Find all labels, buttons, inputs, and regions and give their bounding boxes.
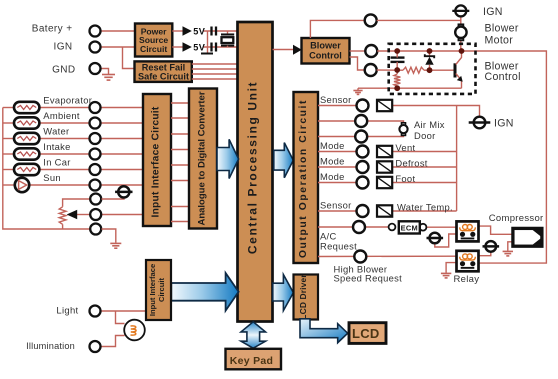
connector temperature set (115, 186, 132, 197)
wire pot top to terminal (63, 199, 91, 207)
terminal Evaporator (90, 102, 101, 113)
svg-text:Relay: Relay (454, 274, 480, 285)
svg-text:Water: Water (43, 125, 69, 136)
terminal mode Defrost (357, 161, 369, 173)
box Power Source Circuit (135, 24, 172, 57)
wire Defrost to bus (392, 166, 456, 168)
terminal GND (90, 63, 101, 74)
wire AC request to ECM (318, 226, 392, 228)
wire sensor row A to IGN (392, 106, 479, 117)
wire IGN to Power Source Circuit (101, 46, 136, 48)
svg-text:Output Operation Circuit: Output Operation Circuit (298, 99, 309, 258)
ground sensor return (110, 243, 121, 248)
label Input Interface Circuit (panel) (148, 264, 166, 316)
wire cap top lead (396, 51, 398, 58)
arrow LCD Driver to LCD (300, 319, 348, 343)
box Compressor clutch (513, 228, 542, 246)
svg-text:Light: Light (56, 306, 78, 317)
arrow CPU to Output Operation Circuit (274, 143, 294, 178)
wire compressor to ground (508, 242, 513, 251)
terminal AC request (353, 221, 365, 233)
wire Input Interface to ADC 6 (171, 180, 189, 182)
arrow CPU to blower control (293, 45, 302, 55)
box Output Operation Circuit (294, 92, 319, 263)
wire Reset to CPU 1 (192, 63, 238, 65)
actuator position sensor A (377, 100, 392, 111)
dashed box blower control module (389, 44, 476, 94)
zener diode blower module (425, 51, 434, 70)
label A/C Request (320, 231, 357, 252)
wire Power box to diode 1 (172, 30, 182, 32)
wire top rail (397, 50, 461, 52)
wire high blower to relay 2 (318, 255, 457, 257)
wire pot bottom (62, 224, 64, 229)
box Blower Control (302, 38, 350, 64)
svg-text:Door: Door (414, 130, 436, 141)
wire pot row to Input Interface (102, 214, 144, 216)
wire Input Interface to ADC 4 (171, 149, 189, 151)
box Central Processing Unit (238, 22, 273, 322)
diode 5V output 1 (183, 26, 192, 36)
terminal air mix C (355, 131, 367, 143)
box ECM (399, 221, 420, 233)
wire air mix row B (318, 120, 355, 122)
wire lamp to Illumination (101, 336, 125, 347)
wire air mix row B right (367, 121, 403, 124)
terminal blower 3 (365, 64, 377, 76)
svg-text:IGN: IGN (54, 42, 73, 53)
wire pot top connector stub (102, 197, 125, 199)
svg-text:Mode: Mode (320, 140, 345, 151)
svg-text:Illumination: Illumination (26, 341, 75, 351)
wire terminal 3 to resistor rail (377, 69, 403, 71)
wire Input Interface to ADC 8 (171, 221, 189, 223)
wire GND to ground (101, 69, 109, 75)
wire 5V vertical join (207, 31, 209, 53)
svg-text:IGN: IGN (494, 117, 514, 129)
wire Ambient to terminal (39, 122, 90, 124)
svg-text:Foot: Foot (395, 173, 415, 184)
terminal pot top (90, 194, 101, 205)
wire Input Interface to ADC 2 (171, 117, 189, 119)
wire Intake to terminal (39, 153, 90, 155)
box LCD (349, 323, 386, 344)
terminal sensor G (357, 205, 369, 217)
svg-text:Central Processing Unit: Central Processing Unit (246, 81, 260, 254)
svg-text:Mode: Mode (320, 156, 345, 167)
ground blower module (357, 88, 359, 90)
actuator door Vent (377, 146, 392, 157)
svg-text:Circuit: Circuit (157, 278, 166, 303)
box Input Interface Circuit (143, 94, 171, 226)
svg-text:Sensor: Sensor (320, 94, 352, 105)
svg-text:Batery +: Batery + (32, 24, 73, 35)
svg-text:5V: 5V (193, 27, 205, 37)
wire bus stub Ambient (3, 122, 13, 124)
arrow pot wiper (67, 210, 78, 219)
terminal In Car (90, 164, 101, 175)
svg-text:Evaporator: Evaporator (43, 94, 92, 105)
terminal Sun (90, 180, 101, 191)
wire Power box to diode 2 (172, 46, 182, 48)
terminal blower 2 (365, 45, 377, 57)
label Blower Motor (485, 22, 519, 46)
box Input Interface Circuit (panel) (146, 260, 171, 320)
wire Input Interface to ADC 7 (171, 206, 189, 208)
wire sensor row A (318, 105, 357, 107)
wire relay 1 to compressor (477, 226, 513, 234)
wire left sensor bus (3, 108, 90, 230)
label Blower Control (309, 41, 342, 61)
wire blower box top to terminal 1 (310, 20, 364, 38)
wire In Car terminal to Input Interface (101, 169, 144, 171)
wire blower box to terminal 2 (350, 50, 366, 52)
svg-text:GND: GND (52, 64, 75, 75)
box Reset Fail Safe Circuit (135, 61, 192, 82)
wire Ambient terminal to Input Interface (101, 122, 144, 124)
svg-text:Speed Request: Speed Request (334, 273, 403, 284)
wire ECM to relay 1 (427, 226, 457, 228)
wire relay 2 to ground (446, 263, 456, 273)
wire terminal 1 to blower motor (377, 19, 461, 21)
terminal IGN (90, 42, 101, 53)
wire Intake terminal to Input Interface (101, 153, 144, 155)
connector IGN (air mix) (469, 117, 491, 129)
svg-text:In Car: In Car (43, 156, 70, 167)
svg-text:Input Interface: Input Interface (148, 264, 157, 316)
svg-text:LCD: LCD (352, 326, 380, 341)
motor air mix door (399, 123, 407, 136)
terminal pot wiper (90, 209, 101, 220)
svg-text:Request: Request (320, 241, 357, 252)
svg-text:Ambient: Ambient (43, 110, 80, 121)
svg-text:Analogue to Digital Converter: Analogue to Digital Converter (197, 91, 208, 225)
svg-text:IGN: IGN (483, 6, 503, 18)
arrow ADC to CPU (217, 139, 239, 178)
terminal blower 1 (365, 14, 377, 26)
svg-text:Compressor: Compressor (489, 213, 544, 224)
svg-text:Vent: Vent (395, 142, 415, 153)
potentiometer temperature set (59, 207, 66, 225)
connector relay 1 stub (435, 234, 457, 247)
wire mode row Foot (318, 182, 357, 184)
svg-text:Input Interface Circuit: Input Interface Circuit (151, 106, 162, 217)
wire Reset to CPU 3 (192, 73, 238, 75)
svg-text:Defrost: Defrost (395, 158, 427, 169)
wire Light branch to lamp (116, 311, 125, 324)
wire Evaporator to terminal (39, 107, 90, 109)
thermistor In Car (14, 164, 39, 175)
wire CPU to blower control (273, 49, 294, 51)
actuator door Defrost (377, 161, 392, 172)
crystal X1 (221, 31, 234, 47)
arrow Input Interface to CPU (bottom) (171, 273, 238, 311)
wire Vent to bus (392, 151, 456, 153)
junction dots blower module (394, 48, 464, 91)
wire sensor row G (318, 210, 357, 212)
capacitor C2 (212, 43, 217, 52)
resistor blower module horizontal (403, 67, 424, 73)
wire 5V rail top (203, 30, 238, 32)
terminal sensor A (357, 100, 369, 112)
wire bottom rail (358, 87, 462, 89)
svg-text:Control: Control (309, 51, 342, 61)
connector IGN (blower) (452, 5, 469, 16)
terminal Light (90, 306, 101, 317)
svg-text:ECM: ECM (401, 224, 418, 233)
lamp illumination bulb (124, 320, 145, 341)
wire mode row Vent (318, 151, 357, 153)
connector relay 2 (483, 241, 500, 252)
svg-text:Motor: Motor (485, 34, 514, 46)
terminal Ambient (90, 118, 101, 129)
label Air Mix Door (414, 119, 445, 141)
wire Water to terminal (39, 138, 90, 140)
wire Reset to CPU 4 (192, 78, 238, 80)
terminal Illumination (90, 341, 101, 352)
terminal mode Foot (357, 177, 369, 189)
wire bottom row to ground (102, 229, 116, 243)
wire Input Interface to ADC 1 (171, 102, 189, 104)
terminal ECM right (420, 224, 427, 231)
diode 5V output 2 (183, 42, 192, 52)
terminal high blower (354, 251, 366, 263)
label Blower Control (module) (485, 60, 521, 82)
label High Blower Speed Request (334, 264, 403, 284)
wire Foot to bus (392, 182, 456, 184)
terminal ECM left (389, 224, 396, 231)
wire bus stub Intake (3, 153, 13, 155)
motor blower (455, 24, 466, 40)
wire Evaporator terminal to Input Interface (101, 107, 144, 109)
terminal Water (90, 133, 101, 144)
box Key Pad (226, 349, 282, 370)
thermistor Evaporator (14, 102, 39, 113)
wire Input Interface to ADC 5 (171, 164, 189, 166)
svg-text:Safe Circuit: Safe Circuit (138, 72, 189, 82)
wire connector relay 2 stub (479, 252, 491, 256)
ground compressor (503, 251, 513, 256)
actuator water temp sensor (377, 205, 392, 216)
thermistor Ambient (14, 117, 39, 128)
svg-text:Water Temp.: Water Temp. (397, 201, 453, 212)
thermistor Water (14, 133, 39, 144)
wire Reset to CPU 2 (192, 68, 238, 70)
wire bus stub Sun (3, 184, 15, 186)
wire resistor to zener node (424, 69, 430, 71)
connector relay 1 (427, 233, 444, 244)
terminal air mix B (355, 115, 367, 127)
actuator door Foot (377, 177, 392, 188)
svg-text:LCD Driver: LCD Driver (298, 274, 308, 320)
wire air mix row C right (367, 134, 403, 136)
arrow CPU to Key Pad (bidirectional) (241, 322, 266, 348)
ground relay 2 (441, 273, 451, 278)
wire Water terminal to Input Interface (101, 138, 144, 140)
svg-text:Sun: Sun (43, 172, 61, 183)
wire blower box to terminal 3 (350, 57, 365, 70)
capacitor blower module (391, 58, 405, 62)
wire air mix row C (318, 136, 355, 138)
wire Light to Input Interface (101, 310, 147, 312)
wire water temp to bus (392, 210, 456, 212)
wire 5V rail bottom (203, 46, 238, 48)
svg-text:Blower: Blower (310, 41, 341, 51)
thermistor Intake (14, 148, 39, 159)
photodiode Sun sensor (15, 178, 29, 192)
terminal Batery + (90, 26, 101, 37)
wire Sun to terminal (29, 184, 90, 186)
wire vresistor top lead (396, 70, 398, 74)
relay R2 (high blower) (457, 251, 479, 271)
terminal Intake (90, 149, 101, 160)
wire mode row Defrost (318, 166, 357, 168)
wire terminal 2 to cap rail (377, 50, 397, 52)
label Power Source Circuit (139, 26, 168, 53)
svg-text:Mode: Mode (320, 171, 345, 182)
wire Sun terminal to Input Interface (101, 184, 144, 186)
wire bus stub Water (3, 138, 13, 140)
terminal mode Vent (357, 146, 369, 158)
capacitor C1 (212, 27, 217, 36)
wire pot wiper (77, 214, 90, 216)
wire IGN branch to Reset Fail Safe Circuit (123, 47, 135, 69)
relay R1 (A/C) (457, 221, 479, 241)
resistor blower module vertical (394, 74, 400, 86)
svg-text:Key Pad: Key Pad (230, 355, 274, 367)
terminal pot bottom (90, 224, 101, 235)
wire bus stub Evaporator (3, 107, 13, 109)
transistor blower module (430, 51, 463, 88)
wire cap bottom lead (396, 62, 398, 70)
vertical bus feedback (456, 106, 458, 212)
wire Batery+ to Power Source Circuit (101, 30, 136, 32)
wire vresistor bottom lead (396, 86, 398, 88)
svg-text:Sensor: Sensor (320, 200, 352, 211)
wire blower motor feed (460, 16, 462, 51)
svg-text:Intake: Intake (43, 141, 70, 152)
wire relay 2 contact to blower rail (462, 51, 547, 263)
wire bus stub In Car (3, 169, 13, 171)
svg-text:Control: Control (485, 71, 521, 83)
svg-text:Blower: Blower (485, 22, 519, 34)
wire In Car to terminal (39, 169, 90, 171)
svg-text:5V: 5V (193, 43, 205, 53)
label Reset Fail Safe Circuit (138, 62, 189, 81)
ground GND terminal (102, 75, 115, 81)
box Analogue to Digital Converter (189, 89, 217, 229)
wire Input Interface to ADC 3 (171, 133, 189, 135)
svg-text:Air Mix: Air Mix (414, 119, 445, 130)
box LCD Driver (294, 275, 319, 320)
arrow CPU to LCD Driver (273, 275, 294, 311)
ground 5V reference bar (201, 53, 213, 55)
svg-text:Circuit: Circuit (140, 44, 167, 54)
